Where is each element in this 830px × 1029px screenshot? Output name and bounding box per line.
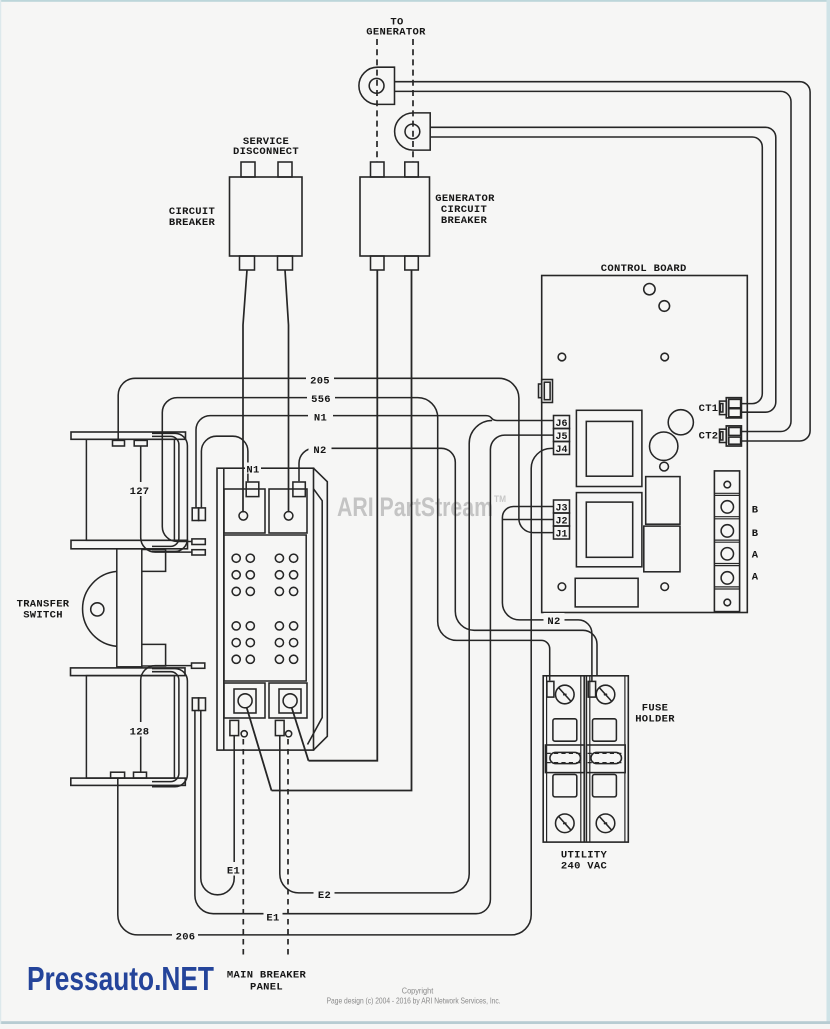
- coil 128 bracket inner: [152, 672, 179, 782]
- fuse right top terminal: [588, 681, 595, 697]
- svg-text:E2: E2: [318, 890, 331, 902]
- coil 127 bracket outer: [152, 433, 187, 551]
- coil 128 terminal left: [111, 772, 125, 778]
- wire E1 panel to J5: [195, 435, 554, 914]
- wire N2 main breaker to fuse right: [299, 448, 597, 676]
- svg-text:Pressauto.NET: Pressauto.NET: [27, 960, 214, 997]
- wire 206 J4 to coil128: [118, 448, 554, 935]
- main breaker panel front face: [217, 468, 314, 750]
- label 205: [306, 372, 334, 386]
- label E2: [314, 886, 335, 900]
- fuse right top screw: [596, 685, 615, 704]
- svg-text:127: 127: [130, 486, 150, 498]
- svg-text:240 VAC: 240 VAC: [561, 861, 608, 873]
- connector J4 box: [554, 442, 570, 455]
- main breaker panel inner left rail: [223, 468, 225, 750]
- CT1 plug body: [726, 398, 741, 418]
- label N2 bottom: [544, 613, 565, 627]
- relay K1 outer: [576, 410, 642, 486]
- switch arm link: [117, 549, 142, 667]
- fuse module inner rails: [547, 676, 625, 842]
- svg-text:SWITCH: SWITCH: [23, 610, 63, 622]
- terminal hole A1: [721, 548, 733, 560]
- generator breaker bottom tab right: [405, 256, 419, 270]
- dashed leader right to MAIN BREAKER PANEL: [287, 739, 289, 956]
- page border bottom: [0, 1021, 830, 1024]
- board mounting hole top 1: [644, 284, 655, 295]
- terminal hole small bottom: [724, 599, 731, 606]
- svg-text:GENERATOR: GENERATOR: [366, 27, 426, 39]
- label N1 on line: [308, 409, 333, 423]
- N1 tab on panel: [246, 482, 259, 497]
- fuse left upper block: [553, 719, 577, 741]
- svg-text:J3: J3: [555, 503, 567, 514]
- svg-text:CONTROL BOARD: CONTROL BOARD: [601, 263, 687, 275]
- svg-text:N1: N1: [246, 465, 259, 477]
- wire inlet1 lower to CT2 pin upper: [395, 91, 792, 431]
- breaker bottom box right: [269, 683, 307, 718]
- svg-text:B: B: [752, 504, 759, 516]
- svg-text:Copyright: Copyright: [402, 985, 434, 995]
- board hole bottom right: [661, 583, 669, 591]
- connector J2 box: [554, 513, 570, 526]
- svg-text:128: 128: [130, 727, 150, 739]
- service breaker top tab right: [278, 162, 292, 177]
- generator breaker top tab left: [371, 162, 385, 177]
- board hole below capacitors: [660, 462, 669, 471]
- wire N1 tab link: [201, 436, 248, 508]
- svg-text:206: 206: [176, 932, 196, 944]
- coil 128 body: [86, 676, 174, 779]
- service breaker top tab left: [241, 162, 255, 177]
- svg-text:BREAKER: BREAKER: [441, 215, 488, 227]
- control board outline: [542, 276, 748, 613]
- coil 127 terminal left: [113, 440, 125, 446]
- switch arm tab top: [142, 550, 166, 572]
- coil 128 top bar: [71, 668, 186, 676]
- svg-text:A: A: [752, 571, 759, 583]
- component rect mid A: [646, 477, 680, 525]
- generator circuit breaker box: [360, 177, 430, 256]
- coil 128 bottom bar: [71, 778, 186, 785]
- label N1 at tab: [245, 463, 261, 474]
- N2 tab on panel: [293, 482, 305, 497]
- svg-text:556: 556: [311, 394, 331, 406]
- wire service breaker left pole down to main breaker left: [243, 270, 247, 513]
- coil 128 bracket outer: [152, 669, 187, 787]
- wire inlet2 lower to CT1 pin upper: [430, 137, 762, 404]
- svg-text:CT1: CT1: [699, 403, 719, 415]
- wire inlet1 upper to CT2 pin lower: [395, 82, 811, 441]
- svg-text:DISCONNECT: DISCONNECT: [233, 146, 299, 158]
- wire diagonal main breaker right to gen loop: [292, 707, 309, 761]
- fuse left lower block: [553, 775, 577, 797]
- wire generator breaker left pole down: [309, 270, 378, 761]
- breaker top screw left: [239, 512, 248, 521]
- svg-text:N2: N2: [313, 445, 326, 457]
- wire 556 upper run: [162, 398, 549, 681]
- connector J5 box: [554, 429, 570, 442]
- generator breaker bottom tab left: [371, 256, 385, 270]
- capacitor circle big: [668, 410, 693, 435]
- coil 127 body: [86, 439, 174, 540]
- breaker bottom lug left: [234, 689, 256, 713]
- terminal hole B2: [721, 525, 733, 537]
- wire U loop tab to panel pin: [201, 711, 234, 895]
- breaker bottom lug screw right: [283, 694, 297, 708]
- svg-text:TM: TM: [494, 494, 506, 504]
- fuse right upper block: [593, 719, 617, 741]
- relay K2 inner: [586, 502, 632, 557]
- board hole mid right: [661, 353, 669, 361]
- wire coil127 right terminal to panel pin: [141, 446, 192, 552]
- generator inlet CT2 body: [395, 113, 431, 150]
- wire service breaker right pole down to main breaker right: [285, 270, 289, 512]
- fuse right cartridge: [586, 745, 625, 773]
- panel connector double square upper: [192, 508, 198, 521]
- relay K2 outer: [576, 493, 642, 567]
- board edge connector left: [539, 384, 542, 398]
- panel bottom pilot hole right: [286, 731, 292, 737]
- switch pivot circle: [91, 603, 104, 616]
- label 556: [307, 391, 335, 405]
- terminal strip cell lines: [714, 493, 739, 589]
- svg-text:205: 205: [310, 376, 330, 388]
- component rect bottom: [575, 578, 638, 607]
- connector J1 box: [554, 526, 570, 539]
- svg-text:E1: E1: [266, 913, 279, 925]
- label N2 near panel: [309, 442, 332, 456]
- terminal strip outline: [714, 471, 739, 612]
- fuse left top screw: [556, 685, 575, 704]
- CT1 plug latch: [720, 401, 727, 415]
- label E1 on line: [264, 908, 283, 922]
- svg-text:N1: N1: [314, 413, 327, 425]
- label 127: [129, 482, 151, 496]
- svg-text:PANEL: PANEL: [250, 982, 283, 994]
- fuse holder outline: [543, 676, 628, 842]
- component rect mid B: [644, 526, 680, 572]
- board mounting hole top 2: [659, 301, 670, 312]
- terminal hole small top: [724, 481, 731, 488]
- transfer switch coil 127 top bar: [71, 432, 186, 439]
- fuse left top terminal: [547, 681, 554, 697]
- svg-text:Page design (c) 2004 - 2016 by: Page design (c) 2004 - 2016 by ARI Netwo…: [327, 995, 501, 1005]
- svg-text:CT2: CT2: [699, 430, 719, 442]
- panel connector lower wide pin: [192, 550, 205, 555]
- service breaker bottom tab right: [278, 256, 293, 270]
- main breaker panel 3d side: [314, 468, 328, 750]
- svg-text:A: A: [752, 549, 759, 561]
- svg-text:J6: J6: [555, 419, 567, 430]
- wire 205 coil127 to J1: [118, 378, 553, 532]
- wire J2 stub: [502, 519, 553, 521]
- svg-text:BREAKER: BREAKER: [169, 217, 216, 229]
- svg-text:J2: J2: [555, 516, 567, 527]
- fuse right bottom screw: [596, 814, 615, 833]
- panel connector upper wide pin: [192, 539, 205, 545]
- breaker top screw right: [284, 512, 293, 521]
- fuse module divider: [584, 676, 586, 842]
- svg-text:J4: J4: [555, 445, 567, 456]
- switch arm tab bottom: [142, 644, 166, 666]
- svg-text:J1: J1: [555, 529, 567, 540]
- wire generator breaker right pole down: [272, 270, 412, 791]
- connector J3 box: [554, 500, 570, 513]
- capacitor circle small: [650, 432, 678, 460]
- terminal hole B1: [721, 501, 733, 513]
- generator inlet CT2 ring: [405, 124, 420, 139]
- breaker top box left: [224, 489, 265, 533]
- fuse left cartridge: [545, 745, 584, 773]
- relay K1 inner: [586, 421, 632, 476]
- coil 128 terminal right: [134, 772, 147, 778]
- coil 127 bottom bar: [71, 540, 188, 549]
- panel terminal block: [224, 535, 306, 681]
- page border left: [0, 0, 1, 1024]
- panel connector wide pin at coil128: [192, 663, 205, 668]
- dashed wire to generator pole A: [376, 39, 378, 162]
- svg-text:N2: N2: [547, 616, 560, 628]
- wire diagonal main breaker left to gen loop: [247, 707, 272, 791]
- dashed leader left to MAIN BREAKER PANEL: [242, 739, 244, 956]
- coil 127 terminal right: [134, 440, 147, 446]
- service disconnect circuit breaker box: [230, 177, 303, 256]
- wire E2 panel tab to J6: [280, 421, 492, 893]
- generator inlet CT1 ring: [369, 78, 384, 93]
- svg-text:B: B: [752, 528, 759, 540]
- page border top: [0, 0, 830, 2]
- wire N1 run to J6: [196, 416, 554, 508]
- dashed wire to generator pole B: [412, 39, 414, 162]
- label 206: [172, 928, 198, 942]
- svg-text:E1: E1: [227, 866, 240, 878]
- service breaker bottom tab left: [240, 256, 255, 270]
- fuse left bottom screw: [556, 814, 575, 833]
- generator breaker top tab right: [405, 162, 419, 177]
- panel bottom tab left: [230, 720, 239, 735]
- wire inlet2 upper to CT1 pin lower: [430, 127, 776, 412]
- wire J3 J2 to N2 fuse line: [502, 507, 592, 682]
- panel bottom pilot hole left: [241, 731, 247, 737]
- label 128: [129, 722, 151, 737]
- svg-text:J5: J5: [555, 432, 567, 443]
- page border right: [827, 0, 830, 1024]
- breaker bottom lug right: [279, 689, 301, 713]
- coil 127 bracket inner: [152, 436, 179, 546]
- board hole mid left: [558, 353, 566, 361]
- CT2 plug latch: [720, 429, 727, 442]
- svg-text:MAIN BREAKER: MAIN BREAKER: [227, 970, 307, 982]
- board hole bottom left: [558, 583, 566, 591]
- switch pivot semicircle: [83, 571, 117, 646]
- generator inlet CT1 body: [359, 67, 395, 104]
- terminal hole A2: [721, 572, 733, 584]
- panel connector double square lower: [192, 698, 198, 711]
- panel terminal dots: [232, 554, 298, 663]
- connector J6 box: [554, 416, 570, 429]
- breaker bottom lug screw left: [238, 694, 252, 708]
- svg-text:HOLDER: HOLDER: [635, 714, 675, 726]
- label E1 at U: [226, 862, 242, 876]
- CT2 plug body: [726, 426, 741, 446]
- breaker bottom box left: [224, 683, 265, 718]
- breaker top box right: [269, 489, 307, 533]
- panel bottom tab right: [275, 720, 284, 735]
- wire coil128 right terminal to panel pin: [141, 666, 192, 773]
- fuse right lower block: [593, 775, 617, 797]
